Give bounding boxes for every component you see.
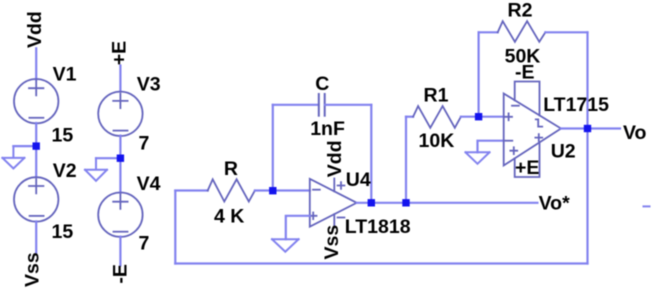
ground flag (U2 - input) — [466, 152, 490, 164]
voltage source V3 — [98, 92, 142, 136]
svg-text:LT1818: LT1818 — [345, 216, 411, 238]
svg-text:Vo*: Vo* — [539, 192, 570, 214]
svg-text:7: 7 — [139, 233, 150, 255]
svg-text:-E: -E — [110, 264, 132, 284]
svg-text:1nF: 1nF — [310, 118, 345, 140]
svg-text:V2: V2 — [53, 160, 77, 182]
voltage source V2 — [14, 177, 58, 221]
svg-text:4 K: 4 K — [214, 205, 244, 227]
wire U4 output to Vo* — [357, 202, 538, 204]
wire capacitor left riser — [272, 105, 274, 191]
svg-text:15: 15 — [52, 221, 74, 243]
node junction output/feedback — [584, 125, 591, 132]
node junction R/C/U4 — [269, 187, 276, 194]
wire right loop vertical (R2/out down to bottom) — [586, 32, 588, 263]
wire U2 - input to ground — [478, 141, 504, 153]
svg-text:10K: 10K — [419, 130, 455, 152]
ground flag (U4 + input) — [272, 239, 299, 252]
svg-text:Vss: Vss — [22, 252, 44, 287]
svg-text:V3: V3 — [137, 74, 161, 96]
svg-text:Vdd: Vdd — [24, 11, 46, 48]
node junction V3-V4 — [117, 155, 124, 162]
wire C right lead — [325, 104, 371, 106]
svg-text:R2: R2 — [508, 0, 533, 22]
resistor R1 — [413, 106, 461, 128]
svg-text:R1: R1 — [424, 85, 449, 107]
node junction output/R1 — [402, 199, 409, 206]
wire bottom loop horizontal — [175, 262, 587, 264]
resistor R — [208, 179, 255, 201]
wire R1 left lead — [406, 116, 413, 118]
op-amp U4 — [310, 179, 357, 228]
svg-text:7: 7 — [139, 133, 150, 155]
svg-text:+E: +E — [515, 157, 539, 179]
wire C left lead — [273, 104, 319, 106]
ground flag (V1/V2 midpoint) — [2, 146, 24, 168]
wire V1 bottom to junction to V2 top — [35, 123, 37, 177]
wire R2 left riser — [478, 32, 480, 116]
wire R1 right to U2 + input — [461, 116, 504, 118]
svg-text:Vo: Vo — [623, 122, 647, 144]
capacitor C — [319, 94, 325, 116]
node junction C feedback/output — [368, 199, 375, 206]
svg-text:Vss: Vss — [321, 225, 343, 260]
wire V4 bottom to -E — [119, 237, 121, 266]
resistor R2 — [498, 21, 546, 42]
wire junction to ground — [13, 145, 36, 147]
wire left feedback loop vertical — [174, 191, 176, 264]
wire U4 + input to ground — [286, 216, 310, 239]
svg-text:-E: -E — [515, 62, 535, 84]
node junction V1-V2 — [33, 142, 40, 149]
wire +E to V3 top — [119, 66, 121, 92]
wire junction to ground — [96, 157, 120, 159]
voltage source V1 — [14, 79, 58, 123]
svg-text:Vdd: Vdd — [324, 140, 346, 177]
svg-text:+E: +E — [108, 41, 130, 65]
wire R2 right lead — [545, 31, 587, 33]
wire V3 bottom to junction to V4 top — [119, 136, 121, 193]
svg-text:LT1715: LT1715 — [543, 94, 609, 116]
wire capacitor right riser — [370, 105, 372, 203]
wire U2 output to Vo — [561, 127, 620, 129]
svg-text:R: R — [224, 158, 238, 180]
ground flag (V3/V4 midpoint) — [85, 158, 107, 181]
svg-text:15: 15 — [52, 124, 74, 146]
wire R2 left lead — [479, 31, 498, 33]
svg-text:U4: U4 — [346, 169, 371, 191]
svg-text:C: C — [315, 73, 329, 95]
voltage source V4 — [98, 193, 142, 237]
stray dash at right edge — [644, 205, 650, 207]
wire riser output to R1 — [405, 117, 407, 203]
wire R left lead — [175, 189, 207, 191]
svg-text:U2: U2 — [551, 141, 576, 163]
svg-text:V1: V1 — [53, 63, 77, 85]
svg-text:V4: V4 — [137, 173, 161, 195]
node junction R1/R2/U2 — [475, 113, 482, 120]
comparator U2 LT1715 — [504, 82, 561, 178]
wire Vdd to V1 top — [35, 48, 37, 79]
wire V2 bottom to Vss — [35, 221, 37, 252]
wire R right to U4 inverting input — [255, 189, 310, 191]
